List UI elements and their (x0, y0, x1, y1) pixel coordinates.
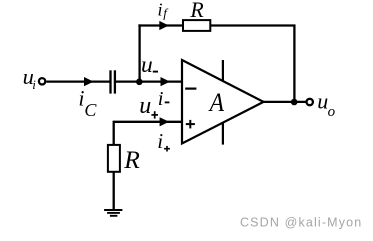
label u_- (141, 52, 158, 78)
label R grounding (123, 145, 140, 174)
wire: node u_- up to feedback branch (138, 24, 140, 82)
svg-text:o: o (328, 104, 336, 120)
label u_i (23, 64, 37, 92)
svg-text:i: i (158, 88, 164, 110)
label u_o (317, 89, 335, 121)
svg-text:u: u (141, 52, 153, 78)
wire: non-inverting input down to resistor (113, 121, 115, 146)
arrow: i_- current direction (161, 77, 171, 86)
input terminal u_i (open circle) (39, 78, 45, 84)
label i_C (78, 86, 97, 120)
label i_f (158, 0, 170, 21)
op-amp inverting input minus sign (185, 87, 196, 89)
wire: capacitor to op-amp inverting input (116, 80, 183, 82)
label u_+ (139, 93, 158, 119)
wire: feedback top left segment (138, 24, 183, 26)
wire: resistor to ground (113, 172, 115, 210)
svg-text:R: R (189, 0, 203, 22)
resistor R feedback (183, 20, 210, 31)
svg-text:i: i (158, 0, 163, 19)
svg-text:u: u (139, 93, 151, 119)
arrow: i_f current direction (159, 21, 169, 30)
wire: op-amp output (263, 101, 306, 103)
resistor R grounding (108, 145, 120, 172)
label R feedback (189, 0, 203, 22)
label A (op-amp gain) (208, 87, 225, 117)
ground symbol (104, 210, 122, 216)
wire: resistor to right corner down to output node (210, 26, 294, 103)
arrow: i_C current direction (84, 77, 94, 86)
svg-text:R: R (123, 145, 140, 174)
svg-text:f: f (163, 6, 169, 21)
op-amp non-inverting input plus sign (186, 120, 195, 128)
watermark CSDN @kali-Myon (240, 216, 362, 230)
wire: non-inverting input (114, 121, 183, 123)
capacitor C plate right (114, 70, 116, 93)
op-amp negative supply tick (222, 122, 224, 144)
node: output junction dot (291, 99, 298, 106)
label i_+ (157, 129, 170, 153)
output terminal u_o (open circle) (307, 99, 313, 105)
op-amp positive supply tick (222, 60, 224, 81)
svg-text:CSDN @kali-Myon: CSDN @kali-Myon (240, 216, 362, 230)
capacitor C plate left (109, 70, 111, 93)
svg-text:i: i (157, 129, 163, 153)
label i_- (158, 88, 170, 110)
wire: input terminal to capacitor (46, 80, 109, 82)
arrow: i_+ current direction (160, 117, 170, 126)
svg-text:A: A (208, 87, 225, 117)
svg-text:C: C (84, 100, 97, 120)
node u_- junction dot (136, 79, 143, 86)
op-amp A triangle (182, 60, 264, 144)
svg-text:i: i (32, 77, 36, 92)
